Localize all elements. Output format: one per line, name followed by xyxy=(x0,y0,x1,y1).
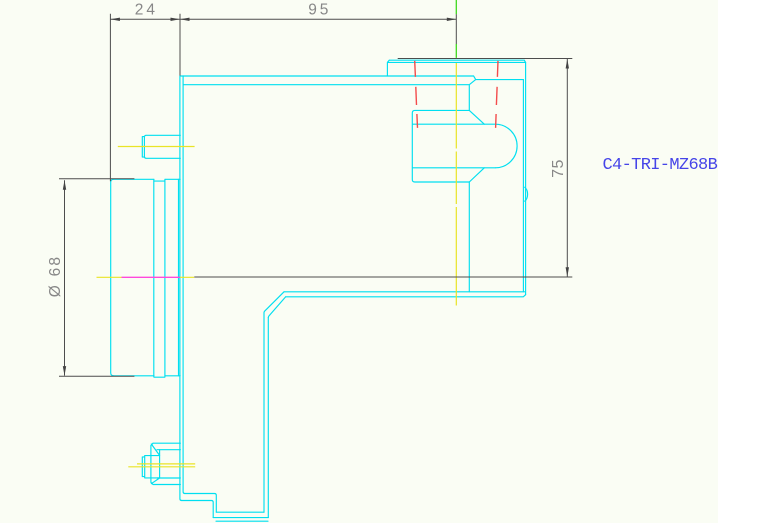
svg-text:Ø 68: Ø 68 xyxy=(47,255,64,297)
svg-text:95: 95 xyxy=(308,1,331,18)
svg-text:C4-TRI-MZ68B: C4-TRI-MZ68B xyxy=(603,156,718,175)
svg-text:24: 24 xyxy=(135,1,158,18)
svg-text:75: 75 xyxy=(550,159,567,178)
